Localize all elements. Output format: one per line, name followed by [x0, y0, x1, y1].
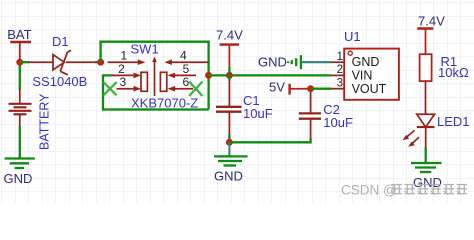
svg-text:GND: GND	[352, 55, 380, 69]
svg-text:D1: D1	[52, 34, 69, 49]
junction dot 5V node	[307, 85, 314, 92]
svg-text:LED1: LED1	[437, 114, 470, 129]
svg-text:VIN: VIN	[352, 69, 373, 83]
svg-text:BATTERY: BATTERY	[37, 93, 51, 150]
svg-text:10uF: 10uF	[243, 106, 273, 121]
capacitor C2 10uF	[299, 92, 321, 140]
emission arrow 2	[408, 137, 419, 147]
svg-text:GND: GND	[4, 171, 33, 186]
ground sideways U1 pin 1	[258, 54, 301, 69]
svg-text:4: 4	[180, 49, 187, 63]
actuator	[152, 57, 157, 97]
pin 2	[112, 73, 141, 79]
wire top loop to pin 4 side	[101, 42, 209, 110]
junction dot ground rail	[226, 139, 233, 146]
junction dot switch input	[97, 59, 104, 66]
wire GND symbol to U1 pin 1	[301, 61, 332, 63]
power flag 7.4V right	[417, 13, 445, 54]
resistor R1 10kOhm	[420, 54, 432, 114]
wire C1 bottom	[228, 134, 230, 142]
svg-text:GND: GND	[413, 175, 442, 190]
pin 5	[168, 73, 196, 79]
pin 4	[164, 59, 208, 65]
svg-text:1: 1	[337, 51, 343, 63]
wire 5V to U1 pin 3	[311, 88, 332, 90]
wire LED to ground	[425, 147, 427, 163]
diode D1 SS1040B	[29, 50, 95, 75]
svg-text:6: 6	[182, 75, 189, 89]
junction dot BAT node	[16, 59, 23, 66]
svg-text:VOUT: VOUT	[352, 82, 387, 96]
battery BATTERY	[9, 90, 32, 127]
capacitor C1 10uF	[216, 75, 242, 134]
wire D1 to switch node	[95, 61, 101, 63]
svg-text:U1: U1	[344, 29, 361, 44]
wire battery top	[19, 59, 21, 91]
svg-text:BAT: BAT	[7, 27, 31, 42]
svg-text:GND: GND	[214, 169, 243, 184]
svg-text:GND: GND	[258, 54, 287, 69]
emission arrow 1	[403, 130, 415, 140]
junction dot switch output	[205, 72, 212, 79]
LED LED1	[403, 114, 435, 147]
svg-text:7.4V: 7.4V	[216, 28, 243, 43]
ground left	[4, 159, 35, 186]
wire ground rail to C2	[229, 139, 310, 143]
svg-text:5V: 5V	[269, 79, 285, 94]
voltage regulator U1	[331, 49, 399, 100]
wire BAT to D1	[20, 61, 30, 63]
svg-text:CSDN @: CSDN @	[341, 183, 397, 198]
wire battery to ground	[19, 126, 21, 159]
ground mid	[214, 142, 248, 183]
ground right	[411, 163, 442, 190]
pin 3	[117, 86, 142, 92]
svg-text:3: 3	[337, 78, 343, 90]
wire bottom loop pin 2 to pin 5 side	[103, 75, 209, 109]
power flag 7.4V left	[216, 28, 243, 76]
power flag 5V	[269, 79, 311, 94]
pin 6	[168, 86, 193, 92]
power flag BAT	[7, 27, 31, 59]
svg-text:2: 2	[337, 64, 343, 76]
no-connect X pin 6	[189, 82, 202, 96]
svg-text:3: 3	[119, 75, 126, 89]
right contact bracket	[160, 72, 166, 91]
left contact bracket	[141, 72, 147, 91]
svg-text:7.4V: 7.4V	[418, 13, 445, 28]
svg-text:SW1: SW1	[131, 41, 159, 56]
junction dot 7.4V tap	[226, 72, 233, 79]
svg-text:5: 5	[183, 62, 190, 76]
svg-text:SS1040B: SS1040B	[32, 74, 87, 89]
pin 1	[108, 59, 146, 65]
wire main 7.4V rail	[209, 74, 332, 76]
slide switch SW1	[103, 49, 208, 96]
watermark CSDN	[341, 183, 467, 198]
no-connect X pin 3	[103, 82, 116, 95]
svg-text:10uF: 10uF	[323, 115, 353, 130]
svg-text:10kΩ: 10kΩ	[438, 65, 469, 80]
svg-text:XKB7070-Z: XKB7070-Z	[131, 96, 198, 111]
svg-text:2: 2	[118, 62, 125, 76]
svg-text:1: 1	[120, 49, 127, 63]
